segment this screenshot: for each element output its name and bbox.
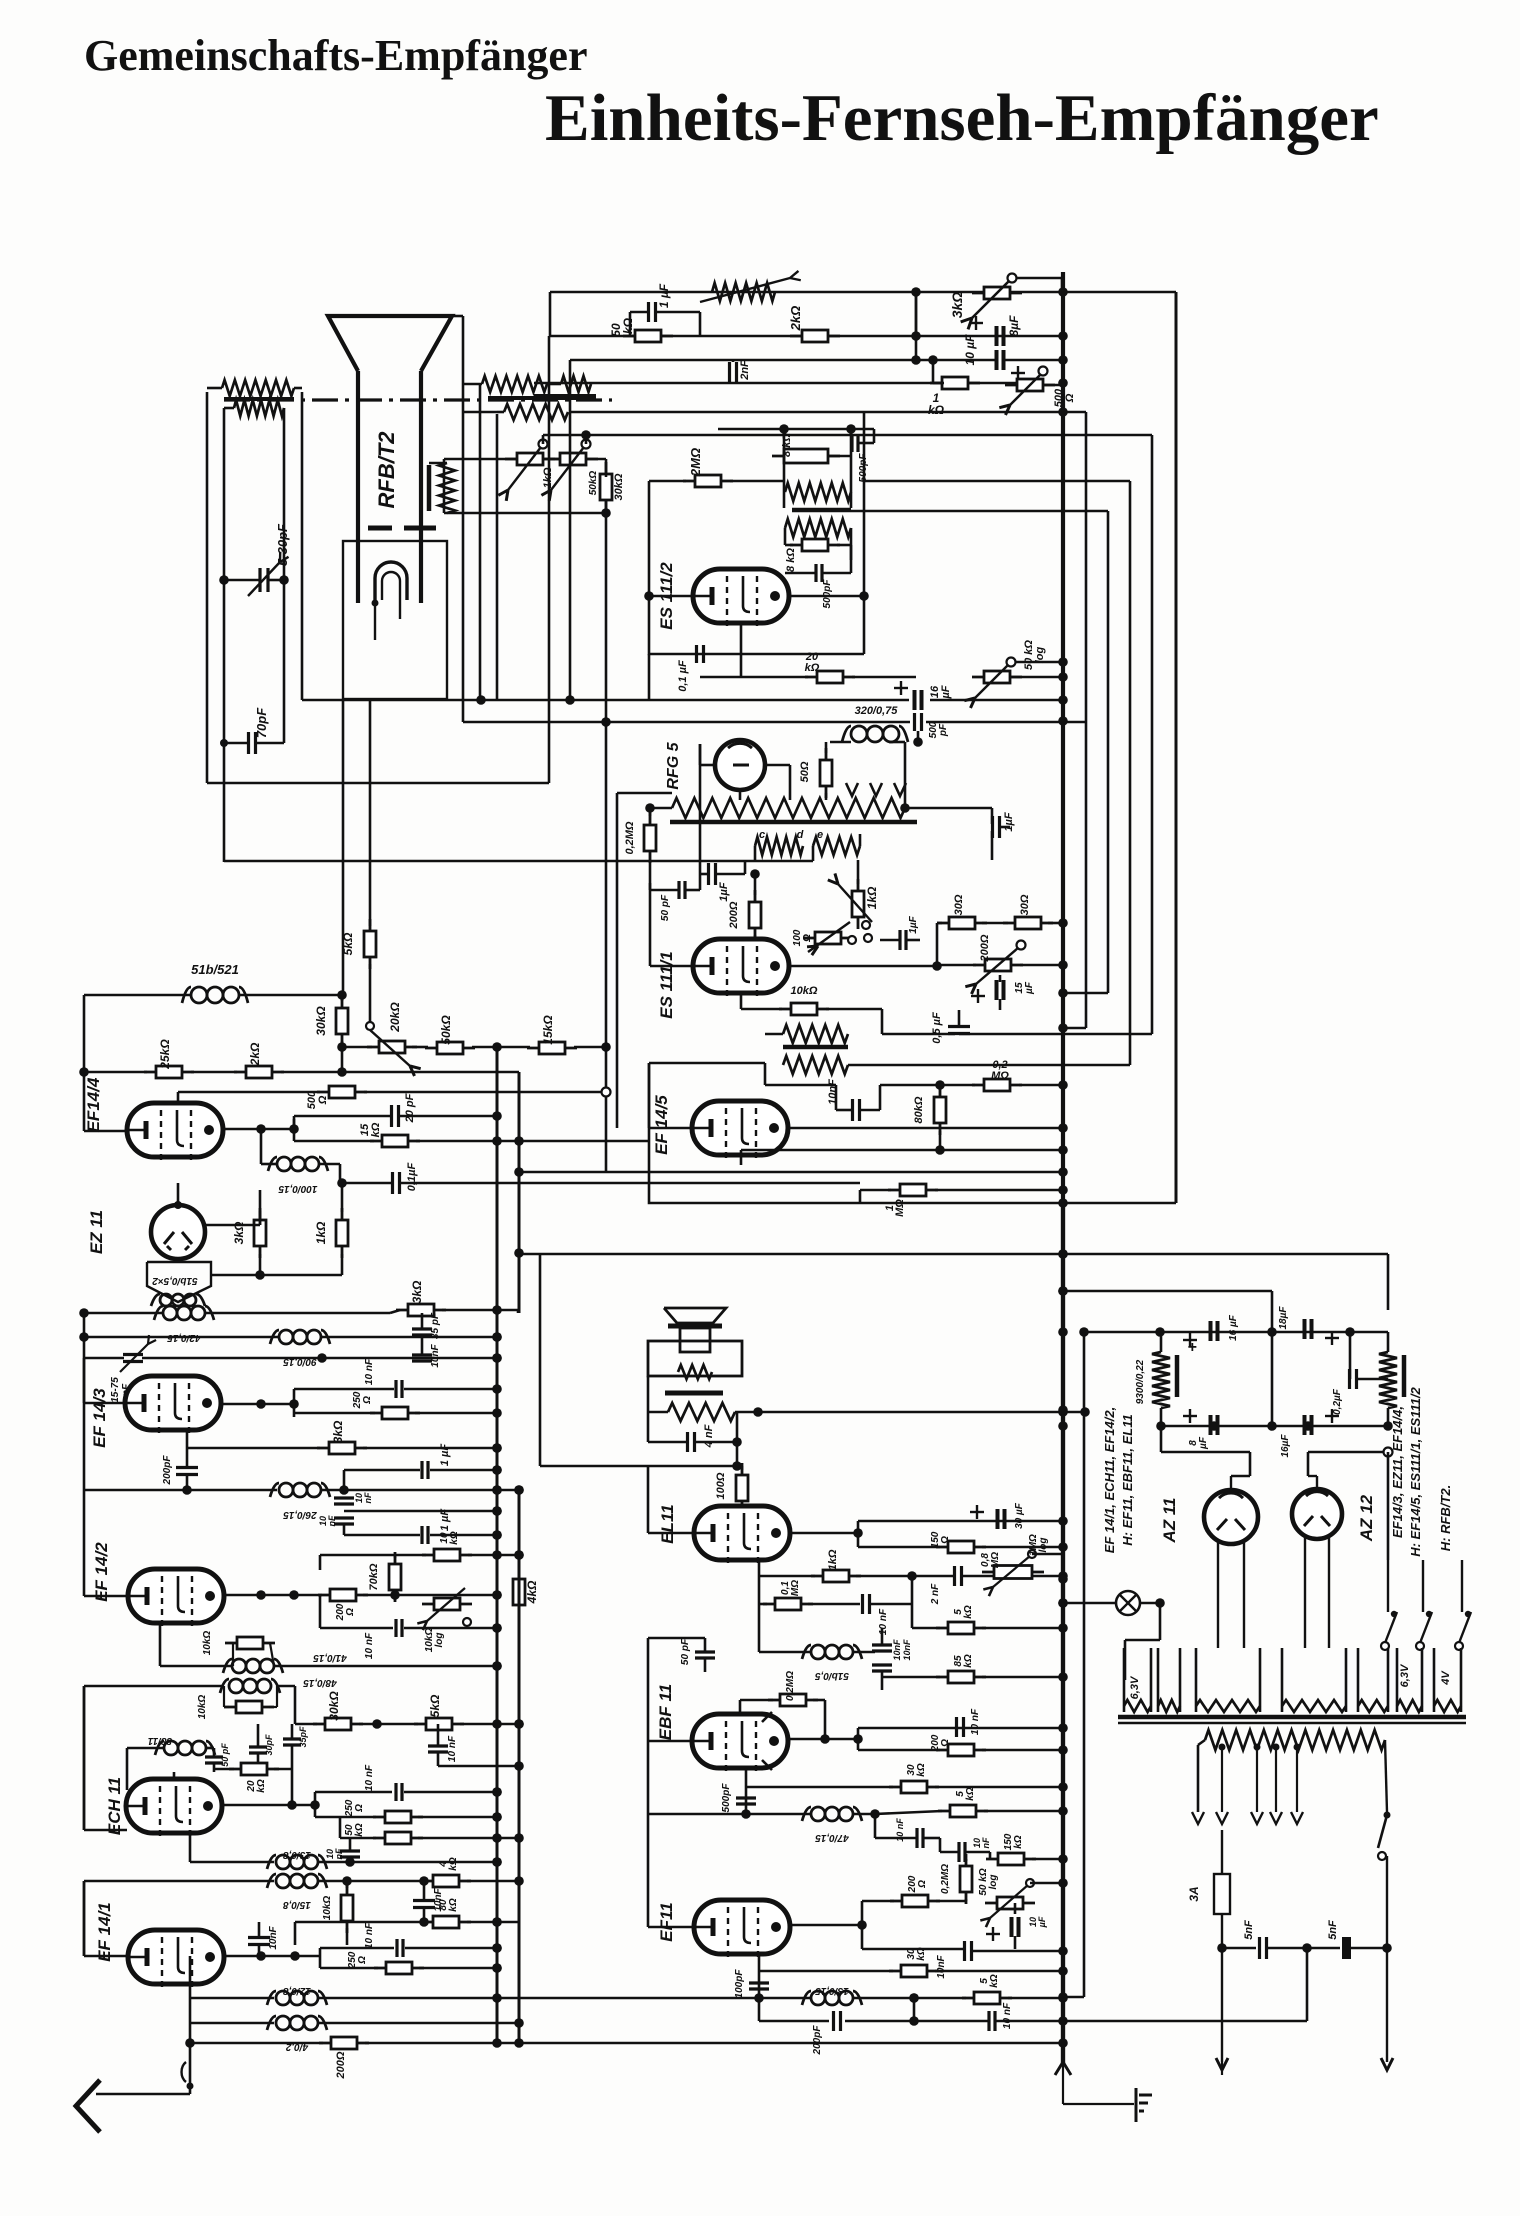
resistor 3kOhm vertical <box>259 1208 262 1258</box>
row y1576 1k 2nF pot <box>759 1575 815 1578</box>
tube EF14/1 <box>128 1930 224 1984</box>
wire y412 long <box>570 411 1086 414</box>
svg-text:13/0,15: 13/0,15 <box>815 1985 849 1996</box>
resistor 30 Ohm A <box>937 922 987 925</box>
resistor 80kOhm vertical <box>939 1085 942 1135</box>
cap 1uF small <box>898 930 901 950</box>
caps 10nF pair <box>872 1643 892 1646</box>
svg-text:10 nF: 10 nF <box>364 1764 375 1791</box>
cap 10nF <box>413 1899 435 1902</box>
svg-text:1 µF: 1 µF <box>439 1509 451 1532</box>
pot 1kOhm focus <box>505 458 555 461</box>
svg-text:85kΩ: 85kΩ <box>953 1654 974 1668</box>
resistor 50kOhm <box>425 1047 475 1050</box>
svg-text:10kΩ: 10kΩ <box>197 1695 208 1720</box>
funnel top link <box>452 315 463 318</box>
trimmer 15-75pF <box>123 1353 143 1356</box>
svg-text:2kΩ: 2kΩ <box>788 306 803 332</box>
wire y1150 <box>741 1149 1063 1152</box>
heater feed vertical <box>1083 1332 1086 1997</box>
EBF plate row <box>788 1738 858 1741</box>
cap 500pF <box>850 434 853 452</box>
svg-text:25kΩ: 25kΩ <box>158 1039 172 1070</box>
svg-text:8 kΩ: 8 kΩ <box>781 433 793 457</box>
svg-text:10 nF: 10 nF <box>895 1818 905 1842</box>
row 10nF 250R 50k <box>315 1791 392 1794</box>
svg-text:30kΩ: 30kΩ <box>314 1006 328 1036</box>
cap 0.1uF under tube <box>695 645 698 663</box>
cap 200pF <box>176 1466 198 1469</box>
row y1628 5k <box>912 1627 940 1630</box>
svg-text:50 pF: 50 pF <box>220 1743 230 1767</box>
electrolytic 18uF <box>1303 1319 1307 1339</box>
cap 50pF <box>205 1755 223 1758</box>
CRT grid dashes <box>368 526 392 531</box>
svg-text:50 pF: 50 pF <box>660 894 671 921</box>
wire y861 long from left <box>224 860 813 863</box>
tube EF14/5 <box>692 1101 788 1155</box>
svg-text:10 nF: 10 nF <box>364 1922 375 1949</box>
resistor 2kOhm <box>234 1071 284 1074</box>
electrolytic 10uF <box>995 350 999 370</box>
cap 500pF <box>736 1796 756 1799</box>
resistor 100 Ohm vertical <box>741 1463 744 1513</box>
svg-text:AZ 11: AZ 11 <box>1160 1497 1179 1543</box>
heavy bar mid <box>792 508 851 513</box>
svg-text:10kΩ: 10kΩ <box>439 1531 460 1545</box>
svg-text:H: EF14/5, ES111/1, ES111/2: H: EF14/5, ES111/1, ES111/2 <box>1408 1386 1423 1556</box>
heavy bar <box>783 1045 848 1050</box>
svg-text:88/11: 88/11 <box>147 1735 172 1746</box>
svg-text:10 nF: 10 nF <box>447 1735 458 1762</box>
pot 50kOhm log <box>548 458 598 461</box>
row y2043 long with 200 Ohm <box>190 2042 323 2045</box>
tube EBF11 <box>692 1714 788 1768</box>
svg-text:EF11: EF11 <box>657 1902 676 1941</box>
svg-text:0,2MΩ: 0,2MΩ <box>624 821 636 854</box>
svg-text:70pF: 70pF <box>254 707 269 738</box>
speaker bar <box>668 1324 722 1329</box>
resistor 1kOhm vertical <box>341 1208 344 1258</box>
cap 10nF y1628 <box>320 1627 393 1630</box>
left inner box with resistor <box>223 408 226 862</box>
antenna input <box>189 2043 192 2094</box>
svg-text:12/0,8: 12/0,8 <box>283 1985 311 1996</box>
svg-text:15kΩ: 15kΩ <box>359 1122 382 1137</box>
svg-text:100Ω: 100Ω <box>715 1472 727 1499</box>
tube cathode leads <box>740 1155 743 1165</box>
cap 100pF <box>749 1981 769 1984</box>
cap 10nF <box>955 1717 958 1737</box>
rectifier AZ12 <box>1292 1489 1342 1539</box>
resistor 30kOhm vertical <box>341 996 344 1046</box>
adjustable resistor top <box>712 283 775 301</box>
electrolytic 10uF <box>1010 1917 1014 1937</box>
vertical x606 upper <box>605 513 608 722</box>
tube EL11 <box>694 1506 790 1560</box>
svg-text:0,5 µF: 0,5 µF <box>931 1012 943 1044</box>
dial lamp <box>1116 1591 1140 1615</box>
left outer box with resistor <box>206 392 209 783</box>
cap 10nF <box>340 1849 360 1852</box>
svg-text:c: c <box>759 829 765 841</box>
svg-text:d: d <box>797 829 804 841</box>
transformer core <box>1118 1715 1466 1720</box>
resistor 0.2MOhm vertical <box>965 1854 968 1904</box>
svg-text:0,8MΩ: 0,8MΩ <box>980 1552 1001 1568</box>
row y1677 85k <box>882 1676 940 1679</box>
pot 50kOhm log <box>972 676 1022 679</box>
coil 12/0.8 <box>190 1997 274 2000</box>
transformer secondary channels <box>1123 1648 1126 1712</box>
heavy bar under zigzag <box>670 820 917 825</box>
top wire y292 <box>550 291 916 294</box>
coil 90/0.15 <box>279 1330 293 1344</box>
svg-text:16µF: 16µF <box>929 685 952 700</box>
tube EF14/3 <box>125 1376 221 1430</box>
svg-text:10nF: 10nF <box>354 1492 373 1503</box>
svg-text:0,2µF: 0,2µF <box>1332 1388 1343 1415</box>
speaker voice coil box <box>680 1328 710 1352</box>
cap 35pF <box>283 1737 301 1740</box>
svg-text:50Ω: 50Ω <box>799 761 811 782</box>
resistor 2kOhm <box>790 335 840 338</box>
svg-text:0,1 µF: 0,1 µF <box>677 660 689 692</box>
resistor 15kOhm <box>527 1047 577 1050</box>
svg-text:320/0,75: 320/0,75 <box>855 705 899 717</box>
CRT neck taps vertical x343 x370 <box>342 699 345 993</box>
svg-text:EF 14/3: EF 14/3 <box>90 1388 109 1448</box>
stage box ES111/2 <box>649 481 864 654</box>
coil 320/0.75 <box>851 726 867 742</box>
wire y1085 <box>765 1084 836 1087</box>
coil 51b/521 <box>191 987 207 1003</box>
svg-text:10µF: 10µF <box>1028 1916 1047 1928</box>
coil 13/0.8 <box>190 1861 274 1864</box>
pot 200 Ohm <box>973 964 1023 967</box>
resistor 9300/0.22 zig <box>1152 1352 1170 1408</box>
svg-text:10kΩ: 10kΩ <box>322 1896 333 1921</box>
resistor 25kOhm <box>144 1071 194 1074</box>
svg-text:2MΩ: 2MΩ <box>688 448 703 477</box>
RFG5 stage box edge <box>616 793 619 1128</box>
svg-text:50kΩ: 50kΩ <box>344 1823 365 1837</box>
row y1466 <box>540 1465 737 1468</box>
svg-text:10kΩ: 10kΩ <box>202 1631 213 1656</box>
row y1511 <box>344 1510 497 1513</box>
svg-text:10nF: 10nF <box>325 1848 344 1859</box>
pot 50kOhm log <box>985 1902 1035 1905</box>
row y1922 80k <box>295 1921 425 1924</box>
stage box EF14/5 <box>649 1063 1063 1203</box>
svg-text:EL11: EL11 <box>658 1504 677 1543</box>
resistor 15kOhm under <box>370 1140 420 1143</box>
coil 88/11 <box>164 1741 178 1755</box>
electrolytic 16uF <box>913 690 917 710</box>
plate loop 10nF/250R <box>293 1389 296 1417</box>
svg-text:0,1µF: 0,1µF <box>406 1163 418 1192</box>
resistor 0.2MOhm vertical <box>649 813 652 863</box>
svg-text:30Ω: 30Ω <box>1019 894 1031 915</box>
wire y1034 <box>882 1033 955 1036</box>
svg-text:20kΩ: 20kΩ <box>388 1002 402 1033</box>
row y1490 with coil 26/0.15 <box>84 1489 277 1492</box>
coil 100/0.15 <box>277 1157 291 1171</box>
left edge vertical <box>83 995 86 1131</box>
svg-text:20kΩ: 20kΩ <box>805 651 820 674</box>
svg-text:30kΩ: 30kΩ <box>327 1691 341 1721</box>
cap 500pF lower <box>814 564 817 582</box>
bundle vertical 1086 <box>1085 412 1088 1028</box>
resistor 500 Ohm <box>317 1091 367 1094</box>
coil 15/0.8 <box>84 1880 274 1883</box>
resistor 0.2MOhm <box>972 1084 1022 1087</box>
CRT deflection plate bar <box>427 465 432 511</box>
cap 10nF a <box>915 1828 918 1848</box>
zigzag e <box>813 837 860 855</box>
tube ES111/1 <box>693 939 789 993</box>
resistor 50 Ohm vertical <box>825 748 828 798</box>
pot 3kOhm top right <box>972 292 1022 295</box>
cap 50pF <box>695 1650 715 1653</box>
svg-text:13/0,8: 13/0,8 <box>283 1849 311 1860</box>
right bleeder zig <box>1379 1352 1397 1408</box>
wire y336 with 50k and 2k <box>550 335 1063 338</box>
svg-text:26/0,15: 26/0,15 <box>283 1509 318 1520</box>
electrolytic 16uF b <box>1303 1415 1307 1435</box>
svg-text:80kΩ: 80kΩ <box>438 1898 459 1912</box>
svg-text:2kΩ: 2kΩ <box>248 1042 262 1066</box>
cap 10nF <box>851 1099 854 1121</box>
row y1811 5k + coil 47/0.15 <box>648 1813 810 1816</box>
cap 4nF <box>686 1432 689 1452</box>
svg-text:0,2MΩ: 0,2MΩ <box>991 1059 1009 1082</box>
capacitor 2nF <box>728 362 731 382</box>
wire y700 long <box>303 699 909 702</box>
zigzag 8k lower <box>785 519 851 537</box>
svg-text:10nF: 10nF <box>318 1515 337 1526</box>
svg-text:1kΩ: 1kΩ <box>865 886 879 909</box>
cap 10nF <box>412 1353 432 1356</box>
tube RFG5 <box>715 740 765 790</box>
cap 50pF <box>677 881 680 899</box>
resistor 8kOhm lower <box>790 544 840 547</box>
resistor 30 Ohm B <box>1003 922 1053 925</box>
svg-text:10nF: 10nF <box>936 1954 947 1978</box>
wire y1048 row <box>342 1046 372 1049</box>
svg-text:200pF: 200pF <box>162 1455 173 1486</box>
svg-text:200Ω: 200Ω <box>728 901 740 929</box>
resistor 20kOhm <box>229 1768 279 1771</box>
focus pot cluster rows <box>444 458 519 461</box>
svg-text:500pF: 500pF <box>858 453 869 483</box>
electrolytic 16uF <box>1209 1321 1213 1341</box>
CRT neck <box>356 371 360 603</box>
svg-text:3kΩ: 3kΩ <box>949 292 965 319</box>
zigzag c d <box>755 837 803 855</box>
svg-text:H: EF11, EBF11, EL11: H: EF11, EBF11, EL11 <box>1120 1414 1135 1546</box>
svg-text:5kΩ: 5kΩ <box>341 932 355 955</box>
row y1291 <box>1063 1290 1272 1293</box>
pot 20kOhm <box>367 1046 417 1049</box>
bundle vertical 1130 <box>1129 481 1132 1065</box>
wire y360 <box>570 359 996 362</box>
vertical x606 long <box>605 722 608 1172</box>
row y1470 cap 1uF <box>344 1469 420 1472</box>
resistor 30kOhm vertical on x606 <box>605 462 608 512</box>
coil 41/0.15 with 10k <box>160 1665 233 1668</box>
wire y1072 row <box>84 1071 147 1074</box>
svg-text:1kΩ: 1kΩ <box>542 467 554 488</box>
row y1604 0.1M 10nF <box>759 1603 767 1606</box>
row y1426 <box>1161 1425 1388 1428</box>
svg-text:500pF: 500pF <box>822 579 833 609</box>
svg-text:1kΩ: 1kΩ <box>314 1221 328 1244</box>
svg-text:1 µF: 1 µF <box>439 1444 451 1467</box>
svg-text:15kΩ: 15kΩ <box>541 1015 555 1045</box>
svg-text:0,1MΩ: 0,1MΩ <box>780 1580 801 1596</box>
speaker field zigzag <box>678 1365 712 1379</box>
EZ11 transformer pentagon <box>147 1262 211 1302</box>
svg-text:47/0,15: 47/0,15 <box>815 1832 850 1843</box>
resistor 1MOhm <box>888 1189 938 1192</box>
EF11 plate loop 200R 10nF <box>861 1901 864 1949</box>
rectifier AZ11 <box>1204 1490 1258 1544</box>
svg-text:0,2MΩ: 0,2MΩ <box>940 1864 951 1894</box>
svg-text:50kΩ: 50kΩ <box>439 1015 453 1045</box>
svg-text:18µF: 18µF <box>1278 1306 1289 1330</box>
heavy bar <box>534 394 596 398</box>
tap chevrons <box>1192 1812 1204 1824</box>
svg-text:RFB/T2: RFB/T2 <box>374 431 399 509</box>
resistor 3kOhm y1448 <box>186 1430 189 1448</box>
fuse 3A <box>1221 1830 1223 2062</box>
speaker horn <box>664 1308 726 1323</box>
svg-text:41/0,15: 41/0,15 <box>313 1652 348 1663</box>
primary taps <box>1219 1744 1226 1751</box>
resistor 200 Ohm vertical <box>754 890 757 940</box>
electrolytic 30uF <box>996 1509 1000 1529</box>
svg-text:1µF: 1µF <box>908 915 919 933</box>
bus heavy segment lower <box>1061 1203 1065 2064</box>
svg-text:70kΩ: 70kΩ <box>368 1563 380 1590</box>
resistor 70kOhm vertical <box>394 1552 397 1602</box>
tap arrows <box>846 783 858 796</box>
lamp drop wire <box>1159 1603 1162 1640</box>
CRT electron gun hook <box>375 562 407 600</box>
tube EF11 <box>694 1900 790 1954</box>
svg-text:10nF: 10nF <box>972 1837 991 1848</box>
CRT RFB/T2 funnel <box>328 316 452 371</box>
svg-text:30kΩ: 30kΩ <box>613 473 625 500</box>
svg-text:EF 14/1: EF 14/1 <box>95 1902 114 1962</box>
coil 4/0.2 <box>190 2022 274 2025</box>
svg-text:10nF10nF: 10nF10nF <box>892 1639 912 1661</box>
heavy bar under zigzag A <box>488 396 596 400</box>
svg-text:Gemeinschafts-Empfänger: Gemeinschafts-Empfänger <box>84 31 588 80</box>
svg-text:5nF: 5nF <box>1243 1920 1255 1940</box>
svg-text:1kΩ: 1kΩ <box>827 1549 839 1570</box>
cap 1uF mid <box>707 863 710 885</box>
resistor 0.2MOhm above <box>768 1699 818 1702</box>
zigzag resistor row B right of CRT <box>504 404 568 420</box>
svg-text:9300/0,22: 9300/0,22 <box>1135 1359 1146 1404</box>
row y1452 <box>1161 1451 1250 1454</box>
IF bus pair verticals <box>496 1048 499 2043</box>
svg-text:10 nF: 10 nF <box>970 1708 981 1735</box>
coil 42/0.15 <box>163 1306 177 1320</box>
svg-text:10nF: 10nF <box>268 1925 279 1949</box>
ground <box>1130 2103 1134 2105</box>
plate loop 10nF 250R <box>319 1948 322 1968</box>
svg-text:100/0,15: 100/0,15 <box>278 1183 317 1194</box>
vertical x570 <box>569 360 572 700</box>
svg-text:EF14/3, EZ11, EF14/4,: EF14/3, EZ11, EF14/4, <box>1390 1406 1405 1538</box>
svg-text:50 pF: 50 pF <box>680 1638 691 1665</box>
electrolytic 8uF <box>1209 1415 1213 1435</box>
bottom arrows <box>1216 2058 1228 2070</box>
bundle vertical 1152 <box>1151 435 1154 1034</box>
cap 1uF right <box>991 816 994 838</box>
svg-text:EF 14/2: EF 14/2 <box>92 1542 111 1602</box>
link to chassis row <box>1306 1948 1309 2021</box>
svg-text:0,2MΩ: 0,2MΩ <box>785 1671 796 1701</box>
svg-text:10nF: 10nF <box>827 1079 839 1105</box>
svg-text:100pF: 100pF <box>734 1969 745 1999</box>
ECH plate row <box>221 1804 315 1807</box>
switches heater <box>1387 1560 1389 1612</box>
cap 10nF b <box>957 1842 960 1862</box>
trimmer capacitor 5-30pF <box>258 568 261 592</box>
svg-text:ES 111/1: ES 111/1 <box>657 951 676 1018</box>
svg-text:1µF: 1µF <box>1003 812 1015 831</box>
svg-text:51b/521: 51b/521 <box>191 962 239 977</box>
tube EZ11 <box>151 1205 205 1259</box>
svg-text:10 nF: 10 nF <box>878 1608 889 1635</box>
vertical x549 to top wires <box>548 336 551 783</box>
svg-text:6,3V: 6,3V <box>1129 1675 1141 1699</box>
svg-text:35pF: 35pF <box>298 1726 308 1748</box>
row y1535 cap 1uF <box>344 1534 420 1537</box>
B+ distribution row y1254 <box>519 1253 1388 1256</box>
svg-text:16 µF: 16 µF <box>1228 1314 1239 1341</box>
svg-text:EF 14/5: EF 14/5 <box>652 1095 671 1155</box>
svg-text:4V: 4V <box>1440 1670 1452 1686</box>
row y2021 <box>759 2020 829 2023</box>
capacitor 70pF in box bottom <box>247 732 250 754</box>
cap 500pF <box>913 713 916 731</box>
CRT gun box <box>343 541 447 699</box>
svg-text:500pF: 500pF <box>721 1783 732 1813</box>
pot 1MOhm log <box>982 1571 1044 1574</box>
svg-text:2 nF: 2 nF <box>930 1583 941 1605</box>
junction dots on bus <box>1058 287 1068 297</box>
primary winding zigzag <box>1205 1730 1385 1750</box>
svg-text:1 µF: 1 µF <box>657 283 671 308</box>
svg-text:10nF: 10nF <box>430 1343 441 1367</box>
svg-text:30 µF: 30 µF <box>1014 1502 1025 1529</box>
outer box bottom row <box>207 782 549 785</box>
svg-text:8 kΩ: 8 kΩ <box>785 548 797 572</box>
pot 100 Ohm diagonal <box>803 937 853 940</box>
speaker field frame <box>648 1341 742 1376</box>
tube EF14/2 <box>128 1569 224 1623</box>
coil 51b/0.5 <box>811 1645 825 1659</box>
pot 10kOhm log <box>422 1603 472 1606</box>
resistor 2MOhm <box>683 480 733 483</box>
resistor 150kOhm <box>986 1858 1036 1861</box>
svg-text:RFG 5: RFG 5 <box>665 741 682 789</box>
